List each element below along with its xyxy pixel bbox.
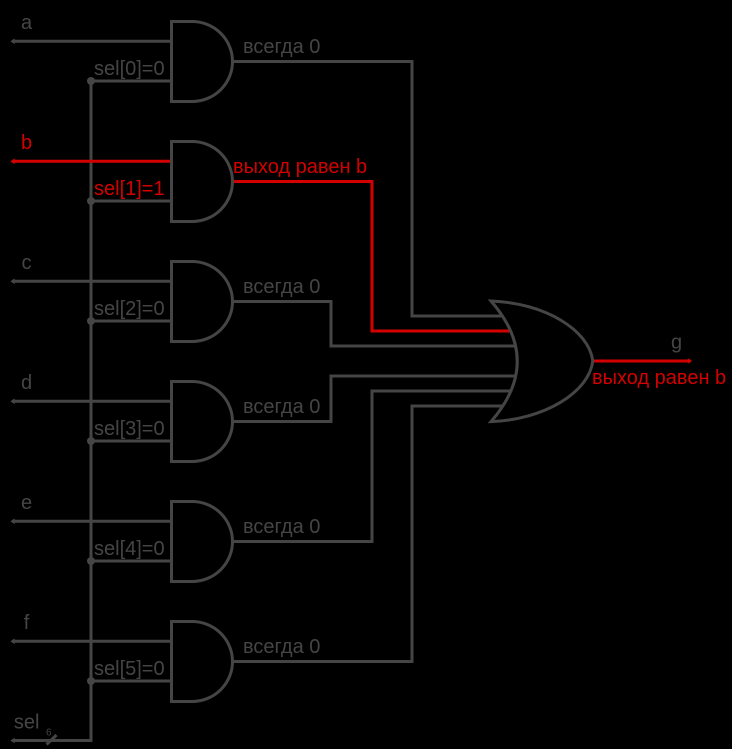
- svg-text:sel[4]=0: sel[4]=0: [94, 538, 165, 560]
- svg-text:всегда 0: всегда 0: [243, 516, 320, 538]
- svg-text:sel: sel: [14, 712, 40, 734]
- svg-text:d: d: [21, 372, 32, 394]
- svg-text:6: 6: [46, 727, 52, 738]
- svg-text:всегда 0: всегда 0: [243, 396, 320, 418]
- svg-text:sel[0]=0: sel[0]=0: [94, 58, 165, 80]
- svg-text:всегда 0: всегда 0: [243, 636, 320, 658]
- svg-text:всегда 0: всегда 0: [243, 36, 320, 58]
- svg-text:выход равен b: выход равен b: [592, 367, 726, 389]
- svg-text:sel[5]=0: sel[5]=0: [94, 658, 165, 680]
- svg-text:sel[2]=0: sel[2]=0: [94, 298, 165, 320]
- svg-text:всегда 0: всегда 0: [243, 276, 320, 298]
- svg-text:f: f: [24, 612, 30, 634]
- svg-text:e: e: [21, 492, 32, 514]
- svg-text:a: a: [21, 12, 33, 34]
- svg-text:sel[3]=0: sel[3]=0: [94, 418, 165, 440]
- svg-text:выход равен b: выход равен b: [233, 156, 367, 178]
- svg-text:g: g: [671, 332, 682, 354]
- svg-text:c: c: [22, 252, 32, 274]
- svg-text:sel[1]=1: sel[1]=1: [94, 178, 165, 200]
- svg-text:b: b: [21, 132, 32, 154]
